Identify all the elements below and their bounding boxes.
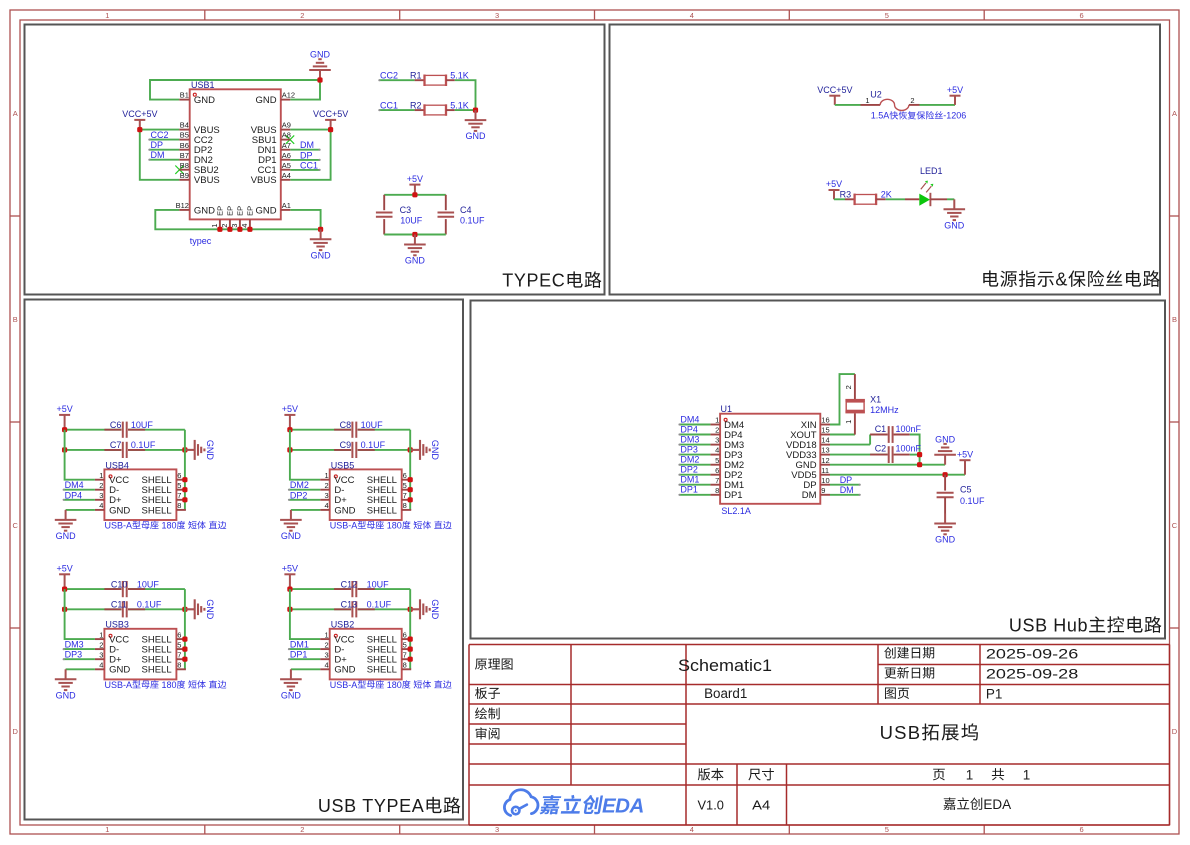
wire XOUT to crystal pin 1 (830, 434, 855, 436)
svg-text:A9: A9 (282, 121, 291, 130)
svg-text:A8: A8 (282, 131, 291, 140)
wire C11 rail (65, 608, 122, 610)
svg-text:1: 1 (99, 471, 103, 480)
junction shell pin 5 of USB3 (182, 647, 187, 652)
wire fuse pin 2 to +5V (920, 104, 956, 106)
svg-text:GND: GND (310, 50, 331, 60)
svg-text:DP2: DP2 (680, 465, 698, 475)
svg-text:1: 1 (325, 471, 329, 480)
svg-text:10UF: 10UF (131, 420, 154, 430)
svg-text:6: 6 (177, 630, 181, 639)
svg-text:B5: B5 (180, 131, 189, 140)
wire VCC right to A9 and A4 (290, 130, 330, 180)
svg-text:C10: C10 (111, 579, 128, 589)
pin EP3 of USB1 bottom (230, 206, 245, 230)
wire USB3 pin 4 to ground (66, 668, 95, 670)
svg-text:USB1: USB1 (191, 80, 215, 90)
svg-text:C5: C5 (960, 484, 972, 494)
title block label 审阅 (476, 727, 500, 739)
svg-text:5.1K: 5.1K (450, 71, 469, 81)
svg-text:1: 1 (966, 767, 974, 782)
pin 5 (SHELL) of USB2 right (367, 640, 411, 655)
svg-text:EP: EP (226, 206, 235, 216)
wire left vertical +5V to pin1 of USB3 (65, 589, 95, 639)
ground symbol below USB2 pin 4 (280, 669, 302, 700)
junction at VCC+5V left (137, 127, 142, 132)
ground symbol right of USB5 group (410, 440, 440, 461)
wire right vertical shell rail of USB3 (184, 589, 186, 669)
connector USB4 USB-A body (104, 460, 226, 530)
junction +5V at C6 rail (62, 427, 67, 432)
junction right at C13 rail (408, 607, 413, 612)
svg-text:3: 3 (99, 651, 103, 660)
ground symbol bottom of USB1 (310, 229, 332, 260)
pin EP1 of USB1 bottom (210, 206, 225, 230)
pin 7 (SHELL) of USB5 right (367, 491, 411, 506)
svg-text:C1: C1 (875, 424, 887, 434)
svg-text:R3: R3 (840, 189, 852, 199)
capacitor C6 10UF (104, 420, 153, 438)
pin B9 (VBUS) of USB1 left (179, 171, 219, 186)
svg-text:4: 4 (325, 501, 329, 510)
capacitor C12 10UF (334, 579, 389, 597)
svg-text:DP4: DP4 (680, 424, 698, 434)
svg-text:GND: GND (109, 505, 130, 516)
ground symbol below USB3 pin 4 (55, 669, 77, 700)
svg-text:1: 1 (105, 11, 109, 20)
svg-text:DP: DP (151, 140, 164, 150)
pin 7 (SHELL) of USB4 right (142, 491, 186, 506)
wire USB4 pin 4 to ground (66, 509, 95, 511)
svg-text:U2: U2 (870, 90, 882, 100)
LED LED1 (905, 166, 947, 206)
svg-text:10UF: 10UF (361, 420, 384, 430)
connector USB5 USB-A body (330, 460, 452, 530)
svg-text:GND: GND (56, 690, 77, 700)
pin A6 (DP1) of USB1 right (258, 151, 291, 166)
svg-text:USB3: USB3 (105, 620, 129, 630)
wire GND pin 12 to ground flag (830, 464, 945, 466)
title block label 更新日期 (885, 667, 935, 679)
pin 1 (VCC) of USB3 left (95, 630, 129, 645)
svg-text:&: & (1055, 270, 1068, 290)
svg-text:B: B (13, 315, 18, 324)
svg-text:1: 1 (865, 96, 869, 105)
svg-text:USB Hub: USB Hub (1009, 615, 1088, 635)
junction shell pin 6 of USB3 (182, 637, 187, 642)
svg-text:Schematic1: Schematic1 (678, 656, 772, 675)
pin 8 (SHELL) of USB4 right (142, 501, 186, 516)
junction right at C7 rail (182, 447, 187, 452)
svg-text:+5V: +5V (947, 85, 963, 95)
svg-text:GND: GND (205, 599, 215, 620)
net label DM1 wire at USB2 pin 2 (288, 640, 320, 651)
svg-text:C12: C12 (341, 579, 358, 589)
svg-text:CC2: CC2 (380, 71, 398, 81)
wire right vertical shell rail of USB2 (409, 589, 411, 669)
svg-text:11: 11 (821, 466, 829, 475)
pin 3 (DM3) of U1 left (710, 436, 744, 451)
title block value 2025-09-28 (986, 666, 1079, 682)
svg-text:DP3: DP3 (680, 444, 698, 454)
pin 2 (DP4) of U1 left (710, 426, 742, 441)
junction shell pin 7 of USB5 (408, 497, 413, 502)
svg-text:C11: C11 (111, 600, 127, 610)
wire +5V rail over C3 C4 (384, 194, 446, 196)
svg-text:5.1K: 5.1K (450, 100, 469, 110)
svg-text:8: 8 (715, 486, 719, 495)
ground symbol below USB4 pin 4 (55, 510, 77, 541)
wire R3 to LED1 (886, 198, 905, 200)
svg-text:100nF: 100nF (896, 424, 922, 434)
pin 2 (D-) of USB5 left (320, 481, 344, 496)
svg-text:+5V: +5V (57, 404, 73, 414)
svg-text:3: 3 (99, 491, 103, 500)
svg-text:+5V: +5V (282, 404, 298, 414)
svg-text:8: 8 (403, 661, 407, 670)
svg-text:2: 2 (300, 11, 304, 20)
frame row labels A-D left (13, 109, 19, 736)
junction left at C13 rail (287, 607, 292, 612)
net label DM2 wire at USB5 pin 2 (288, 480, 320, 491)
IC U1 SL2.1A body (720, 404, 820, 516)
capacitor C5 0.1UF (937, 475, 985, 514)
svg-text:GND: GND (430, 440, 440, 461)
pin B5 (CC2) of USB1 left (179, 131, 213, 146)
svg-text:D: D (1172, 727, 1178, 736)
pin 6 (SHELL) of USB3 right (142, 630, 186, 645)
pin 7 (DM1) of U1 left (710, 476, 744, 491)
svg-text:2: 2 (325, 481, 329, 490)
svg-text:USB-A: USB-A (330, 680, 358, 690)
svg-text:2: 2 (325, 640, 329, 649)
svg-text:SHELL: SHELL (142, 665, 172, 676)
junction +5V rail (412, 192, 417, 197)
net label DP4 wire at USB4 pin 3 (63, 490, 95, 501)
svg-text:4: 4 (99, 661, 103, 670)
svg-text:2: 2 (99, 481, 103, 490)
svg-text:DP: DP (300, 150, 313, 160)
net label CC1 wire at pin A5 (290, 160, 320, 171)
svg-text:A: A (1172, 109, 1177, 118)
pin 2 (D-) of USB3 left (95, 640, 119, 655)
pin 8 (SHELL) of USB3 right (142, 661, 186, 676)
svg-text:3: 3 (495, 11, 499, 20)
svg-text:R1: R1 (410, 71, 422, 81)
frame column labels 1-6 bottom (105, 825, 1083, 834)
pin 4 (GND) of USB3 left (95, 661, 130, 676)
svg-text:5: 5 (885, 11, 889, 20)
net label DP wire at pin B6 (148, 140, 179, 151)
wire right vertical shell rail of USB4 (184, 430, 186, 510)
ground symbol below C3 C4 (404, 235, 426, 266)
wire C7 rail (65, 449, 122, 451)
junction right at C9 rail (408, 447, 413, 452)
title block label 页 1 共 1 (933, 767, 1030, 782)
svg-text:DM: DM (151, 150, 165, 160)
svg-text:B4: B4 (180, 121, 189, 130)
connector USB2 USB-A body (330, 620, 452, 690)
pin 15 (XOUT) of U1 right (790, 426, 830, 441)
ground flag (flipped) at pin 12 net (934, 434, 956, 464)
svg-text:SHELL: SHELL (367, 665, 397, 676)
svg-text:6: 6 (1080, 825, 1084, 834)
svg-text:6: 6 (403, 471, 407, 480)
svg-text:VCC+5V: VCC+5V (817, 85, 852, 95)
power flag +5V at R3 (826, 179, 842, 199)
svg-text:USB4: USB4 (105, 460, 129, 470)
wire left vertical +5V to pin1 of USB4 (65, 430, 95, 480)
svg-text:A4: A4 (282, 171, 291, 180)
wire USB5 pin 4 to ground (291, 509, 320, 511)
pin 3 (D+) of USB2 left (320, 651, 347, 666)
svg-text:Board1: Board1 (704, 686, 747, 701)
wire VCC left to B4 and B9 (140, 130, 180, 180)
svg-text:7: 7 (177, 651, 181, 660)
svg-text:7: 7 (715, 476, 719, 485)
net label DM wire at pin A7 (290, 140, 320, 151)
svg-text:7: 7 (403, 651, 407, 660)
pin 6 (SHELL) of USB4 right (142, 471, 186, 486)
svg-text:A12: A12 (282, 91, 295, 100)
junction at bottom GND rail (318, 227, 323, 232)
svg-text:8: 8 (177, 501, 181, 510)
wire XIN to crystal pin 2 (830, 374, 855, 424)
net label DP4 wire at U1 pin 2 (678, 424, 710, 435)
pin B6 (DP2) of USB1 left (179, 141, 212, 156)
resistor R1 5.1K (410, 71, 469, 87)
svg-text:15: 15 (821, 426, 829, 435)
svg-text:4: 4 (690, 11, 694, 20)
svg-text:2: 2 (910, 96, 914, 105)
svg-text:GND: GND (205, 440, 215, 461)
capacitor C2 100nF (830, 444, 922, 464)
junction EP4 on GND rail (247, 227, 252, 232)
svg-text:USB-A: USB-A (330, 520, 358, 530)
net label DM3 wire at USB3 pin 2 (63, 640, 95, 651)
svg-text:DM4: DM4 (65, 480, 84, 490)
svg-text:V1.0: V1.0 (698, 797, 724, 812)
svg-text:DM: DM (300, 140, 314, 150)
pin 14 (VDD18) of U1 right (786, 436, 830, 451)
resistor R3 2K (840, 189, 892, 205)
wire VCC+5V to fuse pin 1 (835, 104, 861, 106)
svg-text:DM1: DM1 (680, 475, 699, 485)
pin 6 (SHELL) of USB2 right (367, 630, 411, 645)
svg-text:5: 5 (715, 456, 719, 465)
title block grid (469, 645, 1170, 826)
power flag +5V of USB2 group (282, 564, 298, 590)
svg-text:typec: typec (190, 236, 212, 246)
pin 4 (DP3) of U1 left (710, 446, 742, 461)
pin 10 (DP) of U1 right (803, 476, 830, 491)
net label CC2 wire at pin B5 (148, 130, 179, 141)
svg-text:0.1UF: 0.1UF (367, 600, 392, 610)
pin 4 (GND) of USB5 left (320, 501, 355, 516)
svg-text:A4: A4 (752, 797, 770, 812)
svg-text:EP: EP (246, 206, 255, 216)
pin 8 (DP1) of U1 left (710, 486, 742, 501)
svg-text:C13: C13 (341, 600, 358, 610)
title block value Board1 (704, 686, 747, 701)
svg-text:DM2: DM2 (680, 455, 699, 465)
svg-text:LED1: LED1 (920, 166, 943, 176)
svg-text:1: 1 (325, 630, 329, 639)
junction +5V at C12 rail (287, 587, 292, 592)
svg-text:GND: GND (256, 205, 277, 216)
pin 11 (VDD5) of U1 right (791, 466, 830, 481)
wire +5V rail to C10 (65, 588, 122, 590)
pin 2 (D-) of USB4 left (95, 481, 119, 496)
pin 1 (VCC) of USB5 left (320, 471, 354, 486)
svg-text:B1: B1 (180, 91, 189, 100)
wire +5V rail to C12 (290, 588, 351, 590)
svg-text:7: 7 (177, 491, 181, 500)
svg-text:180: 180 (159, 520, 177, 530)
svg-text:10UF: 10UF (137, 579, 160, 589)
junction shell pin 6 of USB5 (408, 477, 413, 482)
title block value 2025-09-26 (986, 645, 1079, 661)
svg-text:5: 5 (177, 481, 181, 490)
junction right at C11 rail (182, 607, 187, 612)
wire GND rail under C3 C4 (384, 234, 446, 236)
svg-text:D: D (13, 727, 19, 736)
svg-text:USB-A: USB-A (105, 680, 133, 690)
svg-text:X1: X1 (870, 394, 881, 404)
svg-text:2K: 2K (881, 189, 892, 199)
net label DP1 wire at U1 pin 8 (678, 485, 710, 496)
junction +5V at C8 rail (287, 427, 292, 432)
svg-text:2: 2 (99, 640, 103, 649)
svg-text:DP1: DP1 (290, 650, 308, 660)
pin 2 (D-) of USB2 left (320, 640, 344, 655)
title block label 绘制 (475, 707, 500, 719)
wire bottom GND rail of USB1 (155, 210, 320, 229)
svg-text:3: 3 (495, 825, 499, 834)
junction shell pin 6 of USB4 (182, 477, 187, 482)
connector USB3 USB-A body (104, 620, 226, 690)
svg-text:6: 6 (1080, 11, 1084, 20)
ground symbol right of USB3 group (185, 599, 215, 620)
svg-text:180: 180 (384, 680, 402, 690)
svg-text:EP: EP (216, 206, 225, 216)
svg-text:GND: GND (256, 95, 277, 106)
svg-text:2025-09-28: 2025-09-28 (986, 666, 1079, 682)
ground symbol right of USB2 group (410, 599, 440, 620)
svg-text:SHELL: SHELL (142, 505, 172, 516)
power flag VCC+5V left (122, 109, 157, 130)
svg-text:DP4: DP4 (65, 490, 83, 500)
frame column labels 1-6 top (105, 11, 1083, 20)
net label DM wire at U1 pin 9 (830, 485, 861, 496)
wire left vertical +5V to pin1 of USB2 (290, 589, 320, 639)
net label CC1 wire to R2 (378, 100, 414, 111)
svg-text:GND: GND (430, 599, 440, 620)
junction shell pin 5 of USB2 (408, 647, 413, 652)
svg-text:12MHz: 12MHz (870, 405, 899, 415)
svg-text:C: C (1172, 521, 1178, 530)
pin A8 (SBU1) of USB1 right (252, 131, 291, 146)
svg-text:180: 180 (159, 680, 177, 690)
svg-text:GND: GND (109, 665, 130, 676)
svg-text:GND: GND (311, 250, 332, 260)
svg-text:DM3: DM3 (65, 640, 84, 650)
junction left at C7 rail (62, 447, 67, 452)
capacitor C4 0.1UF (438, 195, 486, 235)
svg-text:B6: B6 (180, 141, 189, 150)
svg-text:6: 6 (715, 466, 719, 475)
pin 6 (SHELL) of USB5 right (367, 471, 411, 486)
pin 4 (GND) of USB4 left (95, 501, 130, 516)
junction shell pin 6 of USB2 (408, 637, 413, 642)
svg-text:DP3: DP3 (65, 650, 83, 660)
svg-text:0.1UF: 0.1UF (137, 600, 162, 610)
svg-text:14: 14 (821, 436, 829, 445)
svg-text:6: 6 (177, 471, 181, 480)
svg-text:SHELL: SHELL (367, 505, 397, 516)
net label DP wire at pin A6 (290, 150, 320, 161)
svg-text:DM3: DM3 (680, 434, 699, 444)
svg-text:B: B (1172, 315, 1177, 324)
svg-text:USB: USB (880, 722, 922, 743)
junction shell pin 5 of USB5 (408, 487, 413, 492)
wire GND top rail net (150, 80, 320, 100)
svg-text:8: 8 (403, 501, 407, 510)
junction VDD5 C5 (943, 472, 948, 477)
svg-text:GND: GND (56, 531, 77, 541)
power flag +5V of USB4 group (57, 404, 73, 430)
title block value A4 (752, 797, 770, 812)
svg-text:B8: B8 (180, 161, 189, 170)
title block value P1 (986, 687, 1003, 702)
svg-text:VCC+5V: VCC+5V (122, 109, 157, 119)
block border power indicator and fuse circuit (610, 25, 1161, 295)
pin A5 (CC1) of USB1 right (258, 161, 291, 176)
net label DM2 wire at U1 pin 5 (678, 455, 710, 466)
pin EP2 of USB1 bottom (220, 206, 235, 230)
svg-text:VCC+5V: VCC+5V (313, 109, 348, 119)
pin 5 (SHELL) of USB4 right (142, 481, 186, 496)
svg-text:R2: R2 (410, 100, 422, 110)
svg-text:C2: C2 (875, 444, 887, 454)
svg-text:5: 5 (177, 640, 181, 649)
pin 12 (GND) of U1 right (796, 456, 831, 471)
net label DP2 wire at U1 pin 6 (678, 465, 710, 476)
svg-text:A: A (13, 109, 18, 118)
pin B12 (GND) of USB1 left (176, 201, 216, 216)
wire C1 to GND branch (910, 435, 920, 465)
pin A7 (DN1) of USB1 right (258, 141, 291, 156)
svg-text:B7: B7 (180, 151, 189, 160)
net label DM wire at pin B7 (148, 150, 179, 161)
svg-text:0.1UF: 0.1UF (960, 496, 985, 506)
svg-text:EDA: EDA (983, 797, 1011, 812)
logo JLC EDA text (539, 795, 644, 818)
svg-text:EP: EP (236, 206, 245, 216)
power flag +5V at fuse output (947, 85, 963, 105)
svg-text:USB2: USB2 (331, 620, 355, 630)
ground symbol below USB5 pin 4 (280, 510, 302, 541)
pin 1 (VCC) of USB2 left (320, 630, 354, 645)
no-connect X at pin A8 (286, 135, 294, 143)
svg-text:C4: C4 (460, 205, 472, 215)
pin B7 (DN2) of USB1 left (179, 151, 213, 166)
svg-text:10: 10 (821, 476, 829, 485)
pin A9 (VBUS) of USB1 right (251, 121, 291, 136)
svg-text:A7: A7 (282, 141, 291, 150)
pin 16 (XIN) of U1 right (801, 416, 830, 431)
junction +5V at C10 rail (62, 587, 67, 592)
